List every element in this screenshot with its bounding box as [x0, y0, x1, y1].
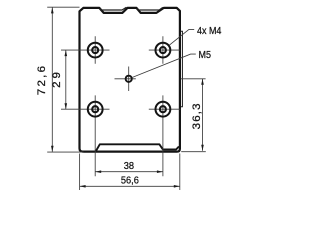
- svg-text:38: 38: [124, 160, 135, 172]
- leader M5: [132, 54, 195, 77]
- hole BR centerlines + 38 extension: [149, 95, 181, 176]
- notch 1 inner thin line: [100, 7, 127, 10]
- extension line 36,3 bottom: [181, 151, 206, 153]
- counterbore hole TR: [156, 43, 171, 58]
- hole TL centerlines: [61, 36, 110, 64]
- hole M5 centerlines: [115, 67, 136, 92]
- dimension line 56,6: [80, 185, 180, 188]
- extension line top (72,6): [47, 6, 79, 8]
- center hole M5: [126, 76, 132, 82]
- extension line bottom-left (72,6 / 56,6): [47, 151, 83, 153]
- dimension line 72,6: [51, 7, 54, 151]
- counterbore hole BL: [88, 102, 103, 117]
- svg-text:36,3: 36,3: [191, 102, 203, 129]
- extension line 56,6 right: [179, 154, 181, 191]
- svg-text:M5: M5: [199, 50, 211, 62]
- svg-text:56,6: 56,6: [121, 175, 139, 187]
- dimension line 29: [65, 50, 68, 109]
- extension line 36,3 top: [181, 78, 206, 80]
- svg-text:4x M4: 4x M4: [197, 26, 222, 38]
- svg-text:29: 29: [51, 69, 63, 88]
- extension line 56,6 left: [79, 154, 81, 191]
- dimension line 38: [95, 170, 163, 173]
- notch 2 inner thin line: [137, 7, 163, 10]
- svg-text:72,6: 72,6: [36, 64, 48, 96]
- right edge tab: [181, 31, 183, 107]
- counterbore hole TL: [88, 43, 103, 58]
- dimension line 36,3: [201, 79, 204, 151]
- bottom groove profile: [96, 144, 179, 151]
- leader 4x M4: [169, 30, 194, 46]
- counterbore hole BR: [156, 102, 171, 117]
- plate outline: [80, 8, 180, 152]
- hole BL centerlines + 38 extension: [61, 95, 110, 176]
- hole TR centerlines: [149, 36, 180, 64]
